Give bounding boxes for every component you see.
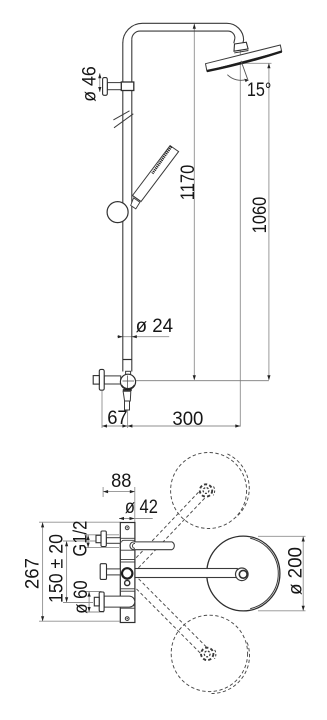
svg-text:ø 200: ø 200 xyxy=(286,547,307,595)
svg-text:ø 24: ø 24 xyxy=(136,316,174,337)
svg-text:67: 67 xyxy=(107,408,128,429)
svg-text:1170: 1170 xyxy=(178,165,199,201)
svg-text:300: 300 xyxy=(172,409,203,430)
svg-text:G1/2: G1/2 xyxy=(71,521,92,557)
svg-text:88: 88 xyxy=(111,471,131,492)
svg-text:1060: 1060 xyxy=(250,197,271,234)
svg-text:150 ± 20: 150 ± 20 xyxy=(46,534,67,603)
svg-text:ø 60: ø 60 xyxy=(71,580,92,614)
svg-text:15°: 15° xyxy=(247,80,272,101)
svg-text:ø 46: ø 46 xyxy=(80,66,101,102)
svg-text:267: 267 xyxy=(23,558,44,589)
svg-text:ø 42: ø 42 xyxy=(125,497,158,518)
